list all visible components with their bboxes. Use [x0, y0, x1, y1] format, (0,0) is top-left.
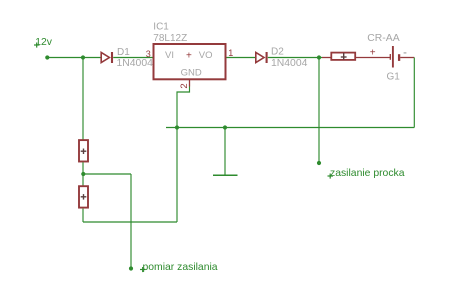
diode D2 — [256, 52, 267, 63]
svg-text:2: 2 — [179, 83, 190, 88]
fuse lead left (maroon) — [322, 57, 332, 59]
junction GND bus / earth — [223, 125, 227, 129]
svg-text:D1: D1 — [117, 47, 130, 58]
earth symbol bar — [213, 174, 238, 176]
svg-text:zasilanie procka: zasilanie procka — [330, 168, 405, 179]
wire IC gnd jog to bus — [177, 87, 190, 128]
fuse (rect with +) — [331, 53, 355, 60]
svg-text:D2: D2 — [271, 47, 284, 58]
svg-text:3: 3 — [146, 49, 151, 59]
svg-text:1N4004: 1N4004 — [117, 58, 154, 69]
net label 12v — [34, 37, 53, 48]
wire endpoint dot (12v source) — [45, 55, 49, 59]
IC1 GND pin stub — [189, 80, 191, 87]
lower divider resistor (rect with +) — [79, 186, 88, 207]
svg-text:IC1: IC1 — [153, 22, 169, 33]
wire D2 to fuse — [268, 57, 322, 59]
wire end dot (pomiar zasilania) — [129, 266, 133, 270]
net label zasilanie procka — [328, 168, 405, 179]
lead battery to corner — [400, 57, 414, 59]
wire bus down left loop — [176, 128, 178, 223]
net stub down to zasilanie procka — [318, 58, 320, 164]
svg-text:1: 1 — [228, 48, 233, 58]
svg-text:pomiar zasilania: pomiar zasilania — [143, 262, 218, 273]
battery origin tick — [389, 54, 391, 60]
net label pomiar zasilania — [140, 262, 218, 273]
wire 12v to D1 — [47, 57, 101, 59]
label - (battery negative) — [404, 52, 407, 54]
svg-text:1N4004: 1N4004 — [271, 58, 308, 69]
junction divider tap — [81, 172, 85, 176]
battery G1 negative plate — [398, 54, 400, 61]
svg-text:CR-AA: CR-AA — [367, 33, 399, 44]
bottom return wire — [83, 221, 177, 223]
wire tap to pomiar (horizontal) — [83, 173, 131, 175]
svg-text:VO: VO — [199, 50, 213, 61]
svg-text:GND: GND — [181, 67, 202, 78]
wire down to divider — [82, 58, 84, 140]
svg-text:+: + — [370, 48, 376, 59]
wire right edge down — [413, 58, 415, 128]
svg-text:78L12Z: 78L12Z — [153, 33, 187, 44]
wire end dot (zasilanie procka) — [317, 161, 321, 165]
earth wire — [224, 128, 226, 176]
IC1 78L12Z regulator body — [154, 44, 226, 79]
wire between divider resistors — [82, 162, 84, 186]
svg-text:+: + — [186, 50, 192, 61]
svg-text:VI: VI — [165, 50, 174, 61]
wire D1 to IC1 VI — [113, 57, 153, 59]
wire up to lower resistor — [82, 209, 84, 222]
svg-text:12v: 12v — [35, 37, 53, 48]
wire tap to pomiar (vertical) — [130, 174, 132, 269]
battery G1 positive plate — [392, 46, 394, 68]
junction GND bus / IC gnd — [175, 125, 179, 129]
diode D1 — [101, 52, 112, 63]
lead fuse to battery — [356, 57, 391, 59]
junction node divider tap top — [81, 55, 85, 59]
svg-text:G1: G1 — [387, 71, 401, 82]
junction node procka tap — [317, 55, 321, 59]
wire IC1 VO to D2 — [227, 57, 256, 59]
GND bus wire — [166, 127, 414, 129]
upper divider resistor (rect with +) — [79, 140, 88, 161]
